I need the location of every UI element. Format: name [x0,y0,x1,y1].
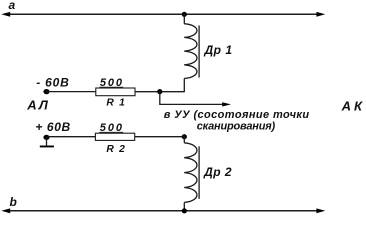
wire R2 to Dr2 junction [135,136,185,138]
svg-text:b: b [10,195,17,209]
wire bottom rail b [4,210,322,212]
wire branch to UU [160,92,223,105]
svg-text:в УУ (сосотояние точки: в УУ (сосотояние точки [164,109,310,121]
ground bar [40,146,54,148]
resistor R2 [95,133,134,140]
arrowhead top rail right [316,12,325,17]
junction node scan point [157,89,162,94]
junction node: top rail to Dr1 [182,12,187,17]
svg-text:АЛ: АЛ [26,97,50,112]
junction node: bottom rail to Dr2 [182,208,187,213]
resistor R1 [96,88,135,96]
inductor Dr1 coil [184,24,197,79]
svg-text:R2: R2 [106,144,130,155]
arrowhead bottom rail left [1,208,10,213]
wire R1 to Dr1 junction [135,91,184,93]
wire -60V to R1 [47,91,96,93]
svg-text:R1: R1 [106,98,130,109]
svg-text:a: a [9,0,16,12]
terminal -60V dot [43,89,49,94]
svg-text:+ 60В: + 60В [35,120,70,134]
wire top rail a [4,13,322,15]
svg-text:- 60В: - 60В [36,75,69,89]
wire Dr1 top stub [183,14,185,23]
ground stem [46,137,48,145]
wire Dr2 bottom stub [183,203,185,211]
inductor Dr2 core [198,146,200,199]
arrowhead bottom rail right [316,208,325,213]
svg-text:Др 2: Др 2 [203,165,232,179]
svg-text:сканирования): сканирования) [197,120,276,132]
svg-text:Др 1: Др 1 [204,43,233,57]
wire +60V to R2 [47,136,96,138]
svg-text:АК: АК [341,99,365,114]
junction node: R2 to Dr2 [182,134,187,139]
arrowhead branch to UU [222,102,231,106]
wire Dr2 top stub [183,137,185,143]
inductor Dr1 core [198,26,200,78]
terminal +60V dot [43,135,49,140]
arrowhead top rail left [1,12,10,17]
wire Dr1 bottom stub [135,79,184,92]
inductor Dr2 coil [184,143,197,203]
